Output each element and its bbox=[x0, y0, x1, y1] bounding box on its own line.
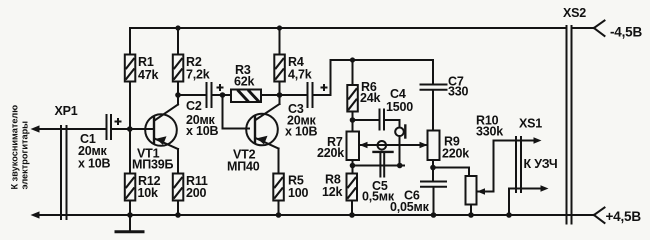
capacitor C3 bbox=[308, 83, 313, 107]
resistor R4 bbox=[274, 28, 285, 95]
wire input top bbox=[40, 128, 105, 130]
wire bottom rail bbox=[40, 214, 594, 216]
plus signs bbox=[115, 84, 328, 125]
capacitor C7 bbox=[421, 60, 447, 131]
wire R9 to R10 bbox=[433, 168, 469, 177]
svg-text:0,05мк: 0,05мк bbox=[390, 200, 430, 214]
potentiometer R10 bbox=[466, 176, 477, 215]
capacitor C4 bbox=[353, 110, 400, 130]
svg-text:4,7k: 4,7k bbox=[288, 68, 312, 82]
wire XS1 ground pin bbox=[509, 185, 549, 215]
svg-text:220k: 220k bbox=[317, 146, 344, 160]
capacitor C1 bbox=[107, 115, 112, 139]
svg-text:+4,5В: +4,5В bbox=[606, 209, 642, 224]
svg-text:10k: 10k bbox=[138, 186, 159, 200]
svg-text:100: 100 bbox=[288, 186, 309, 200]
svg-text:330k: 330k bbox=[476, 125, 503, 139]
wire R7 bottom tap bbox=[353, 165, 405, 167]
svg-text:7,2k: 7,2k bbox=[186, 68, 210, 82]
svg-text:1500: 1500 bbox=[386, 100, 413, 114]
resistor R8 bbox=[347, 174, 358, 216]
wire VT2 base bbox=[223, 95, 250, 129]
transistor VT1 bbox=[145, 95, 178, 174]
svg-text:МП39Б: МП39Б bbox=[132, 157, 174, 171]
socket node B (on wiper line) bbox=[378, 141, 387, 150]
wire C3 right up and across bbox=[313, 60, 434, 95]
svg-text:XP1: XP1 bbox=[55, 104, 78, 118]
wire top rail bbox=[130, 27, 566, 29]
socket node A (on C4 drop) bbox=[395, 120, 405, 166]
potentiometer R9 bbox=[428, 131, 440, 168]
wire C2 to node bbox=[212, 94, 223, 96]
wire C1 to base junction bbox=[112, 128, 154, 130]
svg-text:220k: 220k bbox=[442, 147, 469, 161]
resistor R12 bbox=[125, 129, 136, 215]
svg-text:47k: 47k bbox=[138, 68, 159, 82]
potentiometer R7 bbox=[347, 120, 360, 174]
capacitor C2 bbox=[207, 83, 212, 107]
svg-text:К звукоснимателю: К звукоснимателю bbox=[10, 105, 20, 190]
svg-text:электрогитары: электрогитары bbox=[20, 121, 30, 190]
svg-text:х 10В: х 10В bbox=[186, 124, 219, 138]
transistor VT2 bbox=[246, 95, 279, 174]
svg-text:К УЗЧ: К УЗЧ bbox=[524, 157, 558, 171]
svg-text:-4,5В: -4,5В bbox=[610, 25, 642, 40]
resistor R11 bbox=[173, 174, 184, 216]
capacitor C6 bbox=[421, 168, 446, 216]
svg-text:XS1: XS1 bbox=[519, 117, 542, 131]
label to pickup (vertical) bbox=[10, 105, 30, 190]
capacitor C5 bbox=[374, 152, 393, 177]
svg-text:62k: 62k bbox=[234, 75, 255, 89]
connector XP1 bbox=[61, 126, 67, 219]
arrow to pickup (top) bbox=[31, 125, 40, 132]
connector XS1 bbox=[516, 137, 521, 192]
arrow to pickup (bottom) bbox=[31, 211, 40, 218]
svg-text:х 10В: х 10В bbox=[78, 157, 111, 171]
svg-text:200: 200 bbox=[186, 186, 207, 200]
svg-text:C4: C4 bbox=[390, 87, 406, 101]
svg-text:12k: 12k bbox=[322, 185, 343, 199]
svg-text:C2: C2 bbox=[186, 99, 202, 113]
wire +4.5V arrow bbox=[572, 208, 605, 224]
wiper link R7-R9 bbox=[359, 142, 428, 148]
wire node2 to C3 bbox=[280, 94, 308, 96]
svg-text:24k: 24k bbox=[360, 91, 381, 105]
wiper R10 to XS1 bbox=[477, 137, 542, 194]
wire collector node 1 bbox=[178, 94, 206, 96]
resistor R5 bbox=[273, 174, 284, 216]
resistor R1 bbox=[125, 28, 136, 129]
resistor R6 bbox=[347, 60, 358, 120]
resistor R3 bbox=[223, 90, 280, 103]
svg-text:х 10В: х 10В bbox=[285, 125, 318, 139]
svg-text:330: 330 bbox=[448, 85, 469, 99]
connector XS2 bbox=[567, 26, 572, 224]
svg-text:XS2: XS2 bbox=[563, 6, 586, 20]
svg-text:МП40: МП40 bbox=[227, 160, 260, 174]
ground bbox=[116, 215, 143, 232]
wire -4.5V arrow bbox=[572, 21, 605, 37]
resistor R2 bbox=[173, 28, 184, 95]
